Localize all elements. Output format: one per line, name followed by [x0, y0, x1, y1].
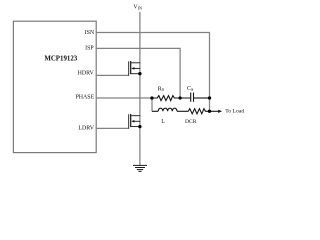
svg-text:ISP: ISP: [85, 45, 94, 51]
svg-text:L: L: [161, 119, 165, 125]
svg-text:CS: CS: [187, 86, 194, 92]
svg-text:To Load: To Load: [225, 108, 244, 114]
svg-text:ISN: ISN: [85, 30, 95, 36]
svg-text:LDRV: LDRV: [78, 125, 94, 131]
svg-text:RS: RS: [158, 86, 165, 92]
svg-text:HDRV: HDRV: [78, 71, 95, 77]
svg-text:PHASE: PHASE: [76, 95, 95, 101]
svg-text:MCP19123: MCP19123: [44, 55, 77, 62]
svg-text:VIN: VIN: [133, 5, 142, 11]
svg-text:DCR: DCR: [185, 119, 197, 125]
